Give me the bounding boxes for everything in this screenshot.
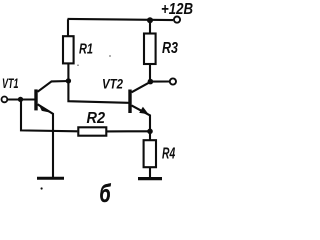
transistor VT2 emitter arrow [139,107,148,114]
wire rail to R3 [149,20,151,33]
ink speck [109,55,111,57]
svg-text:R4: R4 [162,145,175,162]
resistor R3 [144,34,156,65]
wire R2 to VT2 emitter node [106,130,149,132]
wire VT1 collector [38,81,70,92]
wire emitter node to R4 [149,131,151,140]
svg-text:R1: R1 [79,41,93,58]
input terminal (open circle) [2,97,8,103]
wire R1 bottom to VT2 base [68,64,128,103]
svg-text:+12В: +12В [161,1,193,18]
wire R3 bottom to collector node [149,64,151,82]
power terminal +12V (open circle) [174,17,180,23]
ink speck [77,64,79,66]
wire R4 to ground [149,167,151,178]
node junction input/feedback [18,97,23,102]
svg-text:R2: R2 [87,110,106,127]
svg-text:VT2: VT2 [102,75,123,91]
wire R1 top (rail to R1) [67,19,69,35]
ink speck [41,187,43,189]
node junction VT2 emitter/R2/R4 [147,129,153,135]
wire VT1 emitter [38,104,54,178]
ground (right, R4) [138,177,162,180]
wire to output terminal [150,80,169,82]
transistor VT1 emitter arrow [38,104,53,114]
wire VT2 collector [132,82,151,93]
node junction rail/R3 [147,17,153,23]
ground (left, VT1 emitter) [37,177,64,180]
transistor VT1 base bar [34,89,37,110]
output terminal (open circle) [170,78,176,84]
svg-text:VT1: VT1 [2,75,19,91]
resistor R4 [144,140,156,167]
transistor VT2 base bar [128,90,131,114]
wire feedback (base node down and right to R2) [21,100,77,132]
svg-text:б: б [100,180,112,203]
resistor R2 [78,127,106,135]
node junction collector/output [148,79,154,85]
resistor R1 [63,36,74,63]
wire input to VT1 base [8,98,35,100]
node junction R1/VT1 collector [66,78,71,83]
svg-text:R3: R3 [162,40,178,57]
wire top supply rail [68,19,174,20]
wire VT2 emitter [132,105,151,132]
